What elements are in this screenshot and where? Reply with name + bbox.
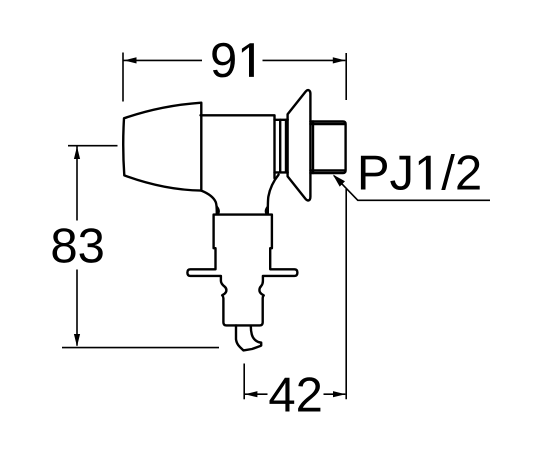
- 83 arrow up: [74, 147, 80, 160]
- neck top edge: [275, 119, 288, 121]
- 91 extension line right: [345, 53, 347, 100]
- 42 dimension line right segment: [324, 393, 346, 395]
- 42 dimension line left segment: [245, 393, 268, 395]
- 83 arrow down: [74, 334, 80, 347]
- right fillet: [268, 175, 279, 214]
- neck ridge line 2: [285, 120, 287, 173]
- 42 arrow right: [333, 391, 346, 397]
- thread relief line top: [310, 123, 345, 125]
- 91 dimension line right segment: [263, 59, 346, 61]
- 42 extension line right: [345, 189, 347, 399]
- PJ1/2 leader line: [334, 176, 490, 201]
- right fillet hook: [266, 207, 268, 214]
- threaded connector outline: [310, 122, 345, 174]
- left fillet hook: [217, 207, 219, 214]
- 91 extension line left: [122, 53, 124, 102]
- thread start line: [312, 122, 314, 174]
- 91 dimension line left segment: [123, 59, 202, 61]
- 42 extension line left: [243, 364, 245, 400]
- left fillet: [201, 191, 217, 214]
- 83 dimension line upper segment: [76, 147, 78, 221]
- valve body: [201, 115, 275, 178]
- bell flange: [288, 90, 311, 200]
- spout nozzle: [236, 325, 261, 350]
- neck ridge line 1: [279, 120, 281, 173]
- dimension text 42: [270, 377, 321, 411]
- dimension text 91: [212, 43, 254, 78]
- 83 extension line bottom: [62, 347, 219, 349]
- neck bottom edge: [275, 171, 288, 173]
- 91 arrow left: [124, 57, 137, 63]
- thread label PJ1/2: [361, 154, 480, 190]
- 83 extension line top: [68, 145, 118, 147]
- PJ1/2 leader arrowhead: [333, 175, 345, 187]
- 42 arrow left: [245, 391, 258, 397]
- handle knob: [123, 103, 201, 191]
- 83 dimension line lower segment: [76, 270, 78, 346]
- 91 arrow right: [333, 57, 346, 63]
- thread relief line bottom: [310, 169, 345, 171]
- union nut and lower valve body with wings: [187, 215, 297, 326]
- dimension text 83: [53, 228, 103, 263]
